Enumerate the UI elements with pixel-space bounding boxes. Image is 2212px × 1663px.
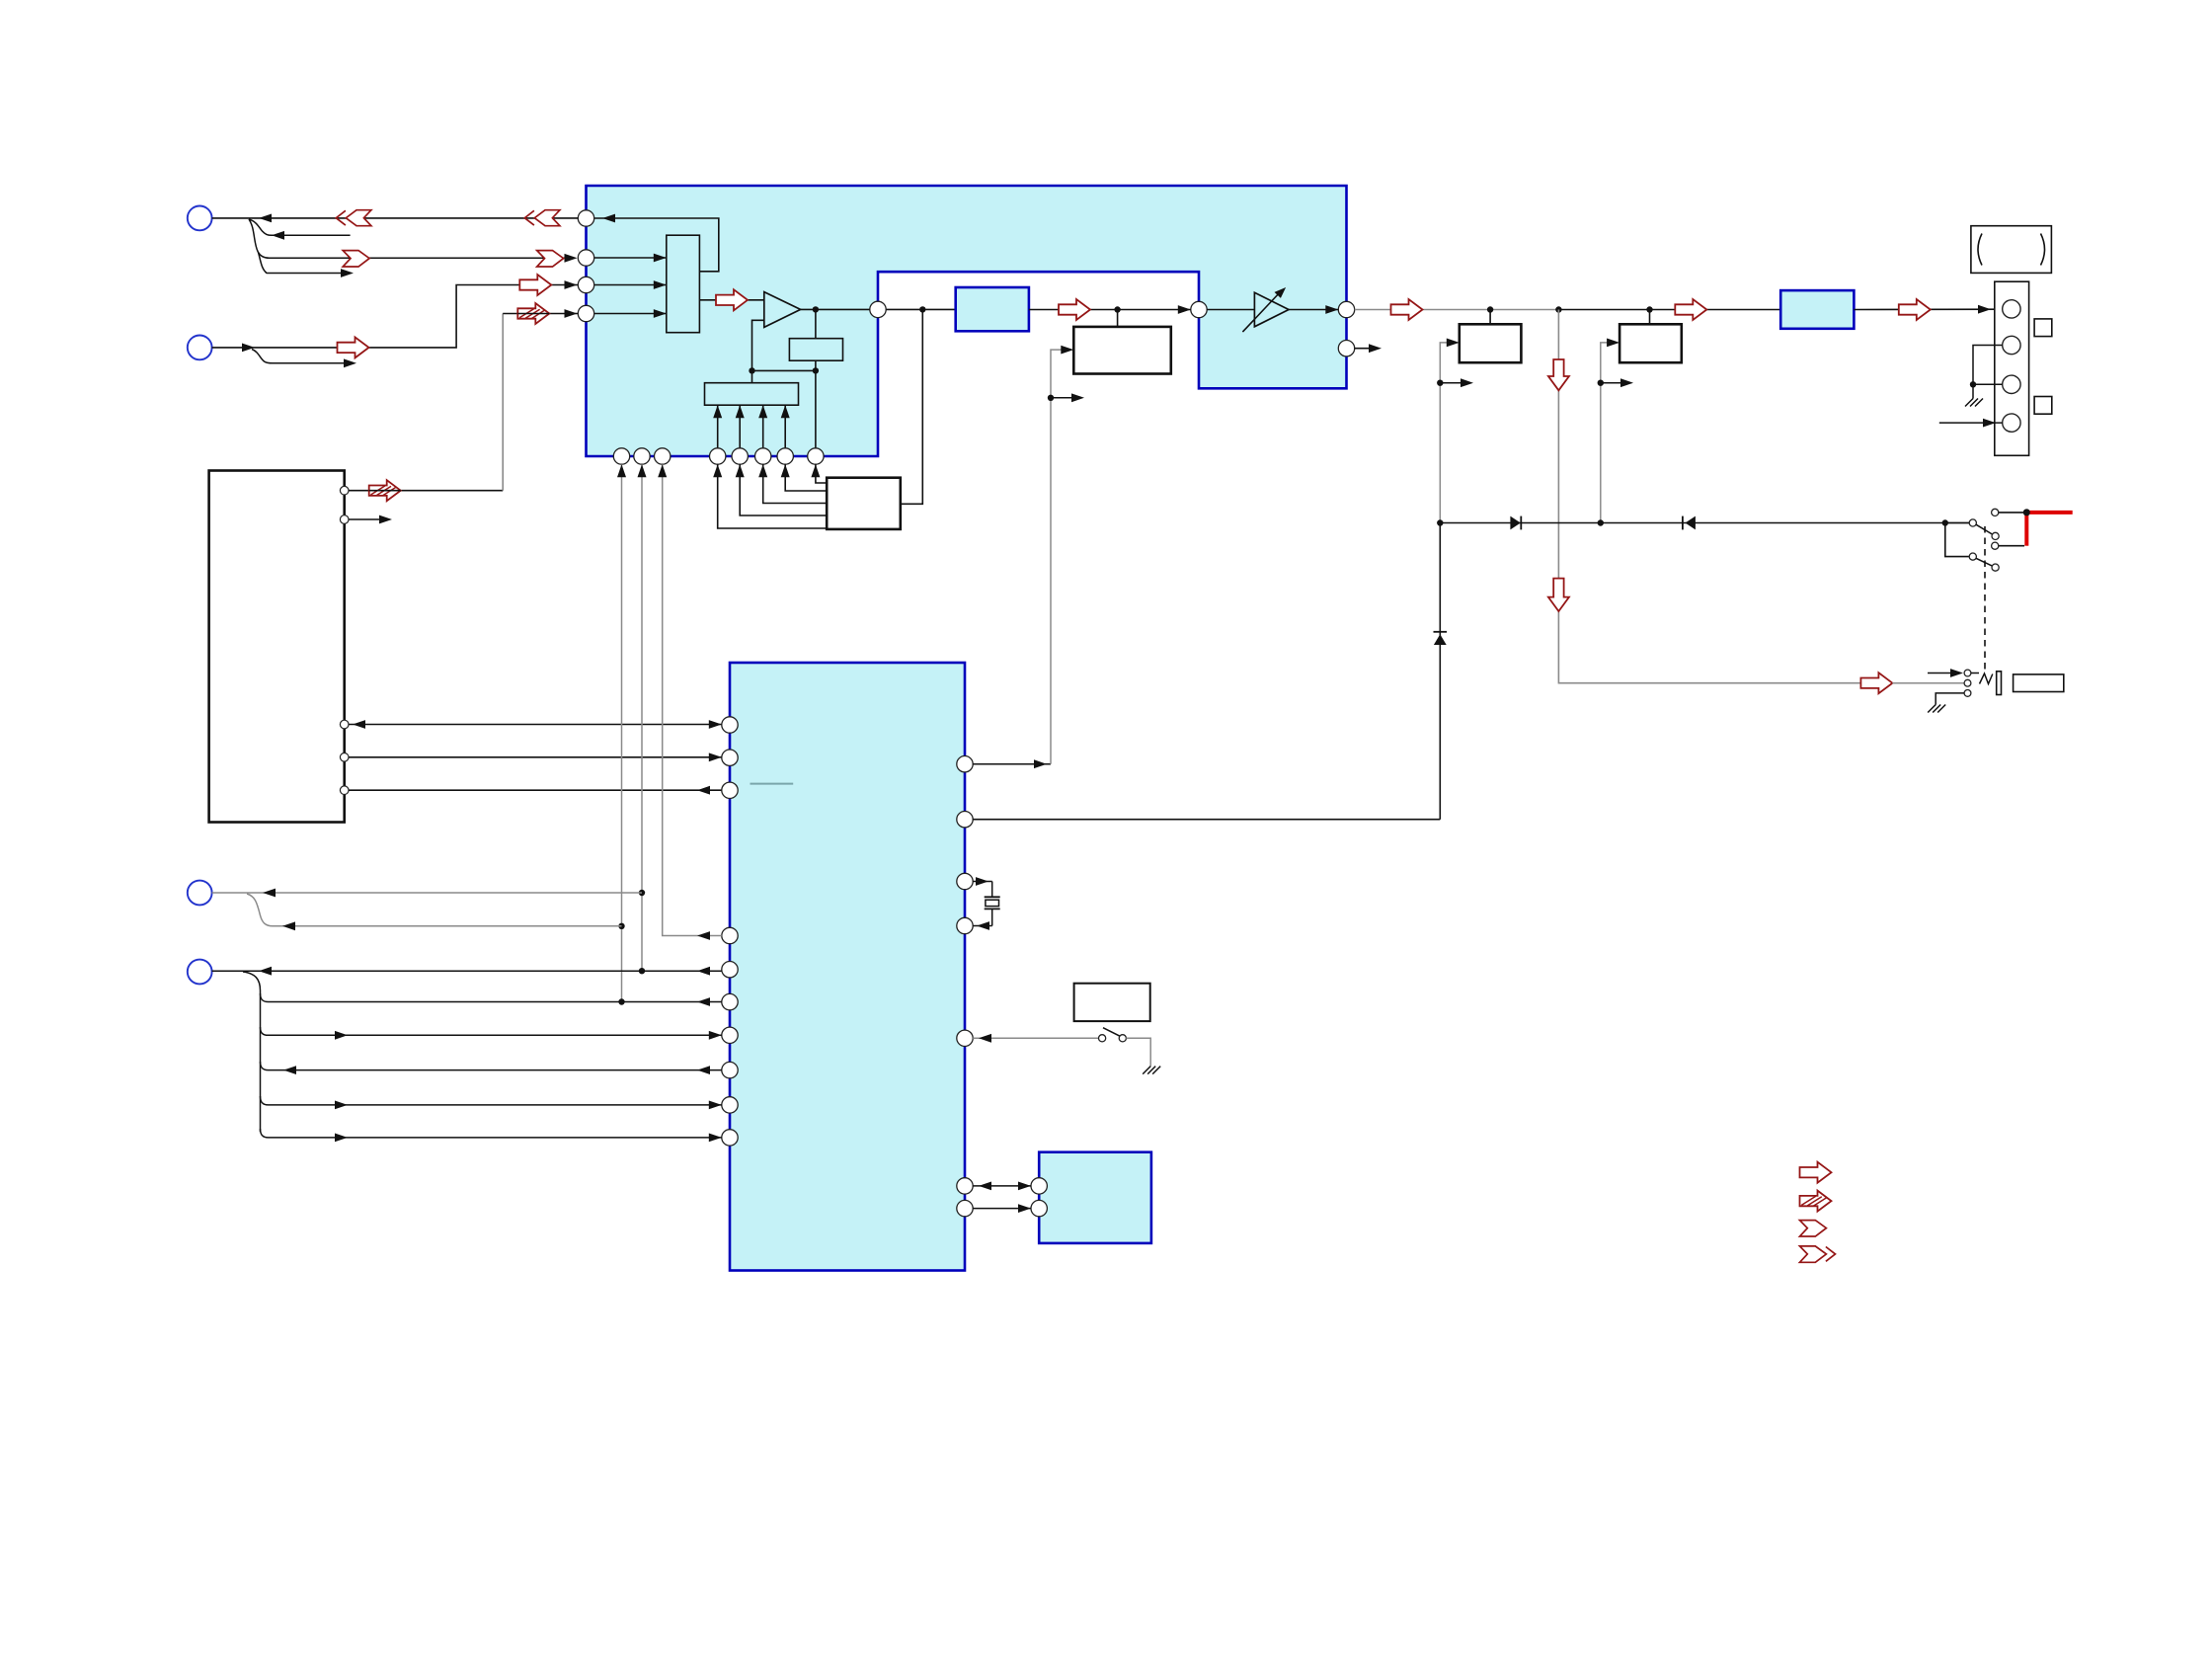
- J1 sleeve ground wire: [1935, 693, 1964, 705]
- control lines into DAC block: [713, 405, 790, 448]
- J1 jack body bar: [1997, 672, 2002, 695]
- legend hatched signal arrow: [1800, 1191, 1832, 1212]
- wire CN4 fan to IC2 b2: [261, 993, 722, 1006]
- diode D3 on power rail: [1683, 516, 1696, 530]
- C3 pin circles: [1031, 1178, 1047, 1217]
- wire CN1 to IC1 pin2: [249, 219, 578, 263]
- mute riser wire to B2: [1048, 346, 1074, 764]
- IC1 pin circle notch border: [1191, 301, 1207, 317]
- signal arrow before CN5: [1899, 299, 1931, 320]
- signal arrow to headphone jack: [1860, 673, 1892, 693]
- legend chevron arrow: [1800, 1221, 1827, 1236]
- wire CN4 to IC2 pin row b1: [212, 967, 722, 976]
- wire op-amp output to pin at inner border: [801, 306, 956, 312]
- wire into CN5 pin4: [1939, 419, 2003, 428]
- stub wire below CN2: [252, 350, 356, 368]
- B3 line amp block: [1460, 310, 1522, 363]
- bus riser 2 from IC1 bottom: [638, 464, 647, 971]
- C2 output filter block: [1780, 290, 1854, 329]
- bus riser 3 from IC1 bottom to IC2: [658, 464, 722, 940]
- connector CN2 left: [188, 336, 212, 360]
- wire T1 pin3 to IC2: [349, 720, 722, 729]
- wire feedback from selector to pin 1: [594, 214, 719, 272]
- power rail horizontal wire: [1437, 519, 1969, 525]
- headphone jack J1 contacts: [1964, 670, 1971, 696]
- wire pin4 to selector: [594, 309, 667, 318]
- wire B1 output to main signal line: [901, 309, 923, 504]
- fan-out riser from CN4: [243, 972, 261, 1132]
- IC1 pin circles left: [578, 210, 593, 322]
- signal arrow before IC1 pin3: [519, 275, 551, 295]
- wire amp to right pin: [1289, 305, 1338, 314]
- wire CN4 fan to IC2 b6: [261, 1129, 722, 1142]
- J1 label box: [2014, 674, 2064, 692]
- IC2 system controller block: [730, 663, 965, 1271]
- wire T1 pin5 to IC2: [349, 786, 722, 795]
- feedback network wire: [749, 309, 819, 447]
- B1 servo block below IC1: [827, 478, 901, 529]
- stub wire below CN3 to riser1: [247, 894, 622, 930]
- gray wire into headphone jack: [1892, 682, 1964, 684]
- reset switch S2: [973, 1028, 1150, 1067]
- wire selector to op-amp: [699, 299, 763, 301]
- wire CN4 fan to IC2 b5: [261, 1096, 722, 1109]
- dashed mechanical link of S1: [1984, 526, 1986, 671]
- CN5 key squares: [2034, 319, 2052, 414]
- signal arrow after C1: [1059, 299, 1090, 320]
- signal arrow inside IC1: [716, 289, 748, 310]
- hatched signal arrow before IC1 pin4: [517, 303, 549, 324]
- ground symbol below S2: [1143, 1067, 1160, 1074]
- ground symbol below J1: [1928, 705, 1945, 713]
- T1 mechanism block left: [209, 471, 345, 823]
- wire IC2 to C3 upper: [973, 1182, 1031, 1191]
- IC1 pin circles bottom: [613, 448, 824, 464]
- B4 reset label block: [1074, 984, 1150, 1021]
- stub arrow on B3 feed riser: [1440, 378, 1473, 387]
- U2 input selector block inside IC1: [667, 235, 700, 333]
- J1 spring contact squiggle: [1971, 673, 1993, 684]
- IC1 pin circle inner border: [870, 301, 886, 317]
- wires B1 to IC1 bottom pins: [718, 464, 828, 528]
- DAC control block inside IC1: [705, 383, 799, 406]
- gray line IC1 output to junctions right: [1355, 306, 1562, 312]
- headphone feed riser from main line: [1558, 310, 1860, 683]
- IC1 main DSP block body: [587, 186, 1347, 456]
- CN5 connector body: [1995, 281, 2029, 455]
- B5 line amp block 2: [1619, 310, 1682, 363]
- wire T1 pin4 to IC2: [349, 752, 722, 761]
- stub arrow from IC1 lower right pin: [1355, 344, 1382, 353]
- wire C1 to IC1 notch pin: [1029, 305, 1191, 314]
- R network block inside IC1: [789, 339, 842, 361]
- diode D2 on power rail: [1510, 516, 1521, 530]
- wire CN4 fan to IC2 b4: [261, 1062, 722, 1074]
- connector CN3 left: [188, 881, 212, 906]
- riser wire to IC1 pin4: [503, 309, 578, 491]
- stub wire second below CN1: [259, 253, 355, 277]
- CN5 pin2 to pin3 ground wire: [1970, 346, 2003, 399]
- black line to C2: [1558, 306, 1780, 312]
- chevron arrow on row2 b: [537, 251, 564, 267]
- red power wire: [2023, 509, 2073, 545]
- stub arrow from T1 pin2: [349, 515, 392, 524]
- stub arrow on mute riser: [1051, 393, 1084, 402]
- stub arrow into J1 tip contact: [1928, 669, 1963, 677]
- signal arrow after IC1 output: [1391, 299, 1423, 320]
- wire IC2 pin to mute riser: [973, 759, 1051, 768]
- wire C2 to CN5: [1854, 305, 2002, 314]
- B2 mute control block: [1073, 310, 1171, 374]
- T1 pin circles: [340, 486, 349, 794]
- stub arrow on B5 feed riser: [1601, 378, 1633, 387]
- wire CN4 fan to IC2 b3: [261, 1027, 722, 1040]
- wire IC2 pin to power riser: [973, 523, 1440, 820]
- switched output contacts: [1992, 509, 2030, 549]
- wire feedback to DAC block: [751, 370, 753, 382]
- connector CN1 top left: [188, 206, 212, 231]
- wire CN2 to IC1 pin3: [212, 280, 579, 352]
- wire CN3 to riser2: [212, 889, 642, 898]
- net label stub inside IC2: [750, 783, 794, 785]
- power switch S1 pole 1: [1948, 519, 1999, 540]
- hatched signal arrow on T1 pin1 wire: [369, 480, 401, 501]
- wire pin2 to selector: [594, 254, 667, 263]
- signal arrow on CN2 wire: [338, 337, 369, 357]
- C1 filter block: [956, 287, 1029, 331]
- double chevron arrow on row1 a: [336, 210, 371, 226]
- stub wire below CN1: [249, 219, 351, 240]
- C3 display driver block: [1039, 1152, 1151, 1243]
- CN5 pin circles: [2003, 300, 2020, 433]
- chevron arrow on row2 a: [343, 251, 369, 267]
- connector CN4 left: [188, 960, 212, 985]
- arrowheads into IC1 bottom pins: [713, 464, 820, 477]
- wire pin3 to selector: [594, 280, 667, 289]
- IC2 pin circles left: [722, 717, 738, 1146]
- crystal X1 circuit: [973, 877, 1000, 930]
- power switch S1 pole 2: [1945, 523, 1999, 572]
- red down arrow 1 on headphone riser: [1548, 359, 1569, 390]
- wire T1 pin1 toward IC1 pin4 lower run: [349, 490, 503, 492]
- B5 feed riser wire: [1598, 339, 1619, 523]
- legend double chevron arrow: [1800, 1246, 1836, 1262]
- red down arrow 2 on headphone riser: [1548, 579, 1569, 611]
- ground symbol below CN5: [1965, 399, 1983, 407]
- op-amp U3: [764, 292, 801, 328]
- IC2 pin circles right: [957, 756, 973, 1217]
- IC1 pin circles right: [1338, 301, 1354, 356]
- bus riser 1 from IC1 bottom: [617, 464, 626, 1001]
- legend solid signal arrow: [1800, 1162, 1832, 1183]
- B3 feed riser wire: [1437, 339, 1460, 523]
- diode D4 on power riser: [1434, 632, 1448, 645]
- CN5 label box with parentheses: [1971, 226, 2051, 274]
- signal arrow before C2: [1675, 299, 1706, 320]
- variable gain amp U4 inside IC1: [1207, 287, 1289, 332]
- wire row1 CN1 to IC1 pin1: [212, 214, 579, 223]
- double chevron arrow on row1 b: [524, 210, 560, 226]
- wire IC2 to C3 lower: [973, 1204, 1031, 1213]
